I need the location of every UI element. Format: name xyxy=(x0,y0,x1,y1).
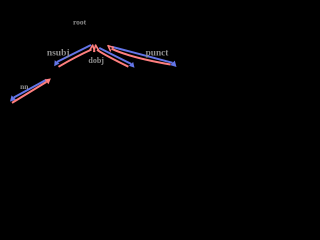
svg-text:root: root xyxy=(73,17,87,26)
svg-text:punct: punct xyxy=(146,48,170,58)
svg-text:nsubj: nsubj xyxy=(47,49,70,59)
svg-text:nn: nn xyxy=(20,82,29,91)
svg-text:dobj: dobj xyxy=(88,56,104,65)
